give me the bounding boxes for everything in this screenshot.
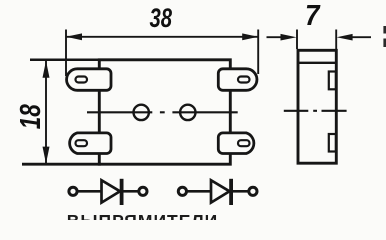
diode D1 cathode wire	[124, 190, 139, 193]
svg-text:38: 38	[150, 3, 173, 33]
bottom-left lug slot	[76, 140, 88, 146]
side view lid line	[298, 62, 336, 64]
dimension 7 right outside arrow	[350, 36, 371, 38]
dimension 18 bottom arrowhead	[43, 147, 50, 164]
side view bottom tab	[329, 134, 336, 152]
diode D2 right terminal circle	[249, 187, 257, 195]
front view body outline	[99, 60, 230, 164]
bottom-left mounting lug	[70, 133, 111, 154]
side view body outline	[298, 50, 336, 163]
side view centerline (dash-dot)	[284, 110, 309, 112]
top-left mounting lug	[67, 69, 111, 91]
svg-text:18: 18	[15, 104, 47, 130]
front view centerline (dash-dot)	[87, 111, 152, 113]
diode D2 left terminal circle	[178, 187, 186, 195]
dimension 38 right arrowhead	[242, 33, 258, 40]
diode D2 triangle	[211, 180, 230, 202]
diode D2 anode wire	[187, 190, 211, 193]
front view bottom edge extension (18 dim)	[22, 163, 101, 166]
top-right lug slot	[238, 77, 250, 83]
dimension 18 top arrowhead	[43, 61, 50, 78]
side view top tab	[329, 72, 336, 90]
front view top edge extension (18 dim)	[30, 59, 101, 62]
svg-text:7: 7	[305, 0, 321, 32]
top-right mounting lug	[218, 69, 257, 91]
left rivet circle	[134, 105, 149, 120]
diode D1 triangle	[102, 180, 121, 202]
diode D1 left terminal circle	[69, 187, 77, 195]
dimension 7 right extension line	[335, 30, 337, 50]
diode D1 anode wire	[78, 190, 102, 193]
partial glyph at right edge	[383, 26, 386, 34]
bottom-right mounting lug	[218, 133, 254, 154]
svg-text:ВЫПРЯМИТЕЛИ: ВЫПРЯМИТЕЛИ	[67, 211, 219, 220]
dimension 38 left arrowhead	[66, 33, 82, 40]
diode D2 cathode bar	[229, 179, 233, 205]
dimension 38 line	[66, 36, 258, 38]
dimension 38 left extension line	[65, 30, 67, 77]
dimension 7 left extension line	[296, 30, 298, 50]
top-left lug slot	[76, 77, 88, 83]
right rivet circle	[180, 105, 195, 120]
dimension 18 line	[45, 61, 47, 164]
diode D2 cathode wire	[233, 190, 249, 193]
diode D1 cathode bar	[120, 179, 124, 205]
diode D1 right terminal circle	[139, 187, 147, 195]
bottom-right lug slot	[238, 140, 250, 146]
dimension 7 left outside arrow	[267, 36, 284, 38]
dimension 38 right extension line	[257, 30, 259, 75]
